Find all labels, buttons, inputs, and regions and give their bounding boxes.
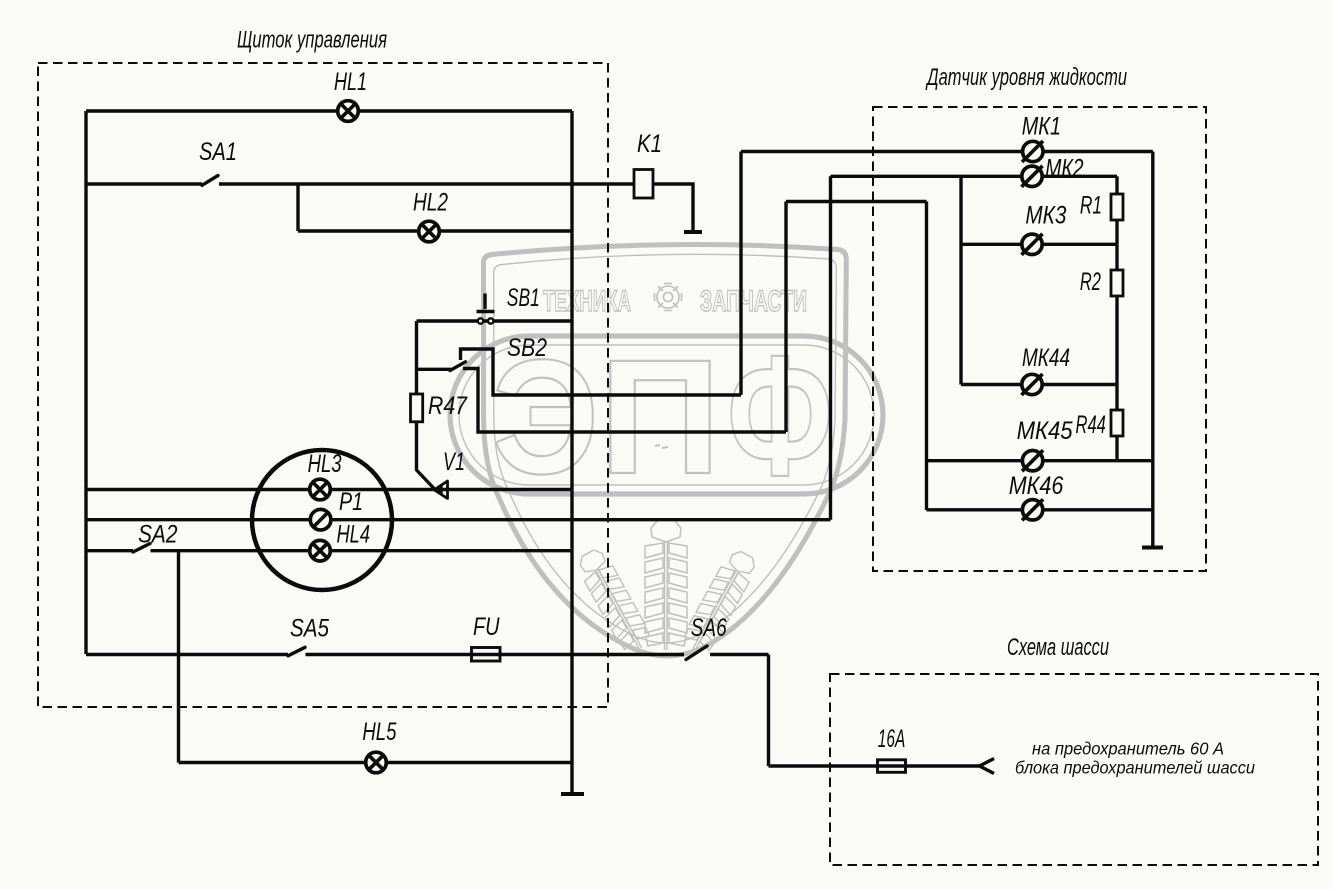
svg-text:SA1: SA1: [199, 138, 237, 166]
svg-text:SB2: SB2: [507, 334, 547, 362]
chassis dashed box: [830, 674, 1318, 865]
watermark gear icon: [655, 284, 682, 311]
svg-text:МК46: МК46: [1009, 472, 1064, 500]
ground bar sensor box: [1142, 546, 1163, 550]
resistor R47: [411, 394, 423, 422]
svg-text:R2: R2: [1080, 268, 1101, 296]
lamp HL4: [310, 540, 331, 561]
lamp HL5: [366, 752, 387, 773]
switch SA6 blade: [686, 646, 707, 660]
watermark band inner: [459, 345, 874, 485]
pushbutton SB1: [477, 294, 495, 324]
wire: MK2 left drop: [959, 176, 962, 384]
wire: right bus: [570, 111, 573, 794]
svg-text:ТЕХНИКА: ТЕХНИКА: [543, 285, 631, 318]
wire: left bus: [84, 111, 87, 654]
svg-text:SA2: SA2: [138, 521, 178, 549]
watermark wheat ear right: [679, 547, 760, 658]
wire: SB2 lower contact path: [463, 369, 786, 433]
wire: P1 row: [86, 518, 831, 521]
svg-text:HL4: HL4: [337, 521, 371, 549]
pushbutton SB2 actuator and upper path: [461, 349, 742, 395]
svg-text:R44: R44: [1076, 411, 1106, 439]
svg-text:R1: R1: [1080, 192, 1102, 220]
svg-text:Схема шасси: Схема шасси: [1007, 634, 1109, 661]
lamp HL2: [419, 221, 440, 242]
svg-text:Ф: Ф: [727, 320, 833, 512]
svg-text:HL2: HL2: [413, 189, 448, 217]
wire: MK45 row: [927, 459, 1153, 462]
resistor R1: [1111, 176, 1123, 244]
wire: HL2 branch: [298, 184, 572, 231]
svg-text:V1: V1: [443, 448, 465, 476]
switch SA5 blade: [288, 647, 305, 656]
sensor contact MK45: [1022, 450, 1043, 471]
wire: SA2 HL4 row: [86, 549, 572, 552]
svg-text:блока предохранителей шасси: блока предохранителей шасси: [1015, 758, 1255, 778]
svg-text:16А: 16А: [878, 725, 906, 753]
watermark specks: [655, 445, 668, 448]
wire: HL1 row: [86, 109, 572, 112]
wire: MK45 feed riser: [786, 202, 927, 511]
sensor contact MK3: [1022, 234, 1043, 255]
svg-text:на предохранитель 60 А: на предохранитель 60 А: [1032, 739, 1224, 759]
wire: K1 to terminal: [653, 184, 693, 231]
instrument cluster circle: [252, 450, 392, 590]
diode V1: [434, 481, 447, 499]
svg-text:Щиток управления: Щиток управления: [237, 27, 387, 54]
watermark band outer: [450, 336, 883, 494]
liquid level sensor dashed box: [873, 107, 1206, 571]
svg-text:FU: FU: [473, 613, 500, 641]
wire: drop from SA2 row to HL5 row: [177, 551, 180, 763]
switch SA1 blade: [202, 176, 218, 186]
watermark shield logo: [450, 245, 883, 658]
svg-text:R47: R47: [428, 392, 468, 420]
resistor R2: [1111, 244, 1123, 384]
svg-text:МК3: МК3: [1025, 202, 1066, 230]
ground bar at bottom of right bus: [561, 792, 584, 796]
svg-text:МК44: МК44: [1022, 344, 1070, 372]
lamp HL3: [310, 479, 331, 500]
svg-text:HL3: HL3: [308, 450, 342, 478]
wire: MK3 row: [961, 243, 1117, 246]
gauge P1: [310, 509, 331, 530]
wire: SA1 row to K1: [86, 182, 634, 185]
wire: MK1 right drop to ground: [1151, 152, 1154, 548]
relay coil K1: [634, 170, 653, 199]
svg-text:ЗАПЧАСТИ: ЗАПЧАСТИ: [700, 285, 807, 318]
svg-text:МК2: МК2: [1045, 155, 1083, 183]
svg-text:SA5: SA5: [290, 615, 329, 643]
svg-text:HL5: HL5: [362, 718, 396, 746]
wire: HL3 row: [86, 488, 572, 491]
svg-text:SA6: SA6: [691, 614, 727, 642]
wire: MK44 row: [961, 383, 1117, 386]
shield outer outline: [484, 245, 847, 656]
svg-text:SB1: SB1: [507, 284, 540, 312]
fuse 16A: [878, 760, 906, 773]
wire: SA5 FU row: [86, 653, 769, 656]
resistor R44: [1111, 385, 1123, 461]
sensor contact MK1: [1022, 141, 1043, 162]
svg-text:HL1: HL1: [334, 68, 367, 96]
lamp HL1: [338, 101, 359, 122]
watermark wheat ear left: [573, 546, 654, 657]
svg-text:МК1: МК1: [1022, 113, 1061, 141]
svg-text:П: П: [599, 325, 721, 508]
wire: R47 to diode: [417, 422, 436, 490]
wire: SB2 row stub: [417, 368, 452, 371]
wire: MK1 feed riser: [741, 152, 1153, 396]
wire: MK46 row: [927, 508, 1153, 511]
wire: SA6 down to chassis row: [769, 655, 980, 767]
svg-text:Датчик уровня жидкости: Датчик уровня жидкости: [925, 64, 1127, 91]
wire: SB1 row: [417, 319, 573, 322]
wire: HL5 row: [179, 761, 573, 764]
svg-text:P1: P1: [339, 488, 363, 516]
control panel dashed box: [38, 63, 608, 707]
svg-text:K1: K1: [637, 130, 662, 158]
watermark wheat ear center: [645, 520, 687, 650]
sensor contact MK44: [1022, 374, 1043, 395]
connector arrow: [980, 759, 995, 774]
svg-text:МК45: МК45: [1017, 417, 1073, 445]
fuse FU: [472, 648, 501, 662]
wire: MK2 feed riser: [831, 176, 1118, 519]
sensor contact MK46: [1022, 499, 1043, 520]
shield inner outline: [494, 254, 837, 643]
wire: left drop from SB1 row to SB2 and R47: [415, 321, 418, 394]
terminal bar: [684, 230, 702, 234]
switch SA2 blade: [133, 544, 150, 553]
sensor contact MK2: [1022, 166, 1043, 187]
switch SB2 blade: [450, 362, 466, 371]
